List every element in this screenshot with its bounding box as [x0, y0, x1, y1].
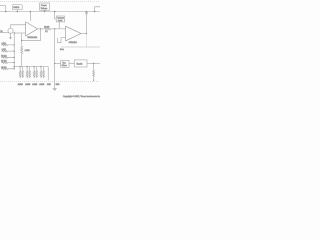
- capacitor CA2 vertical: [29, 67, 31, 79]
- capacitor CA3 vertical: [36, 67, 38, 79]
- label box B3 current source: [56, 16, 64, 22]
- node: B1 junction: [17, 11, 18, 12]
- resistor R5: [1, 68, 14, 70]
- svg-text:1 1: 1 1: [45, 31, 48, 33]
- wire: B5 to right edge: [87, 62, 100, 64]
- node RA4: [40, 66, 41, 67]
- dashed page border bottom: [0, 81, 100, 83]
- node: B2 junction: [44, 11, 45, 12]
- capacitor CA4 vertical: [43, 67, 45, 79]
- wire: rail drop to current source box: [55, 12, 57, 19]
- wire: output line: [61, 46, 100, 48]
- wire: source bottom lead: [10, 33, 12, 37]
- wire: bus continues to ground: [54, 63, 56, 88]
- wire: U1B inverting input loop: [58, 38, 66, 43]
- wire: B4 to B5: [69, 62, 74, 64]
- svg-text:Vout: Vout: [60, 48, 64, 51]
- capacitor CA1 vertical: [22, 67, 24, 79]
- node R1: [14, 44, 15, 45]
- node: U1A power junction: [30, 11, 31, 12]
- resistor RA2 vertical: [26, 67, 28, 79]
- op-amp U1B: [66, 26, 81, 41]
- wire: B1 to rail: [16, 10, 18, 12]
- resistor R3: [1, 56, 14, 58]
- wire: bottom rail: [14, 67, 48, 81]
- node RA1: [20, 66, 21, 67]
- svg-text:1 kΩ: 1 kΩ: [2, 49, 7, 51]
- wire: source top to op-amp input: [11, 25, 26, 28]
- wire: U1A output to R6: [38, 28, 45, 30]
- svg-text:OPA2134A: OPA2134A: [27, 36, 38, 39]
- bus: left divider bus: [13, 33, 15, 69]
- label box B5: [74, 60, 87, 67]
- label box B1: [12, 5, 22, 10]
- node: rail junction right: [86, 11, 87, 12]
- resistor R4: [1, 62, 14, 64]
- source V1 microphone circle: [8, 28, 13, 33]
- node: U1B output junction: [86, 33, 87, 34]
- dashed page border top: [0, 0, 100, 2]
- wire: output drop faint: [86, 34, 88, 47]
- svg-text:AGND: AGND: [39, 83, 45, 86]
- node R5: [14, 68, 15, 69]
- svg-text:1 kΩ: 1 kΩ: [2, 43, 7, 45]
- node: mid signal junction: [54, 28, 55, 29]
- ground arrow R7: [93, 80, 95, 82]
- wire: top right corner branch: [95, 7, 100, 12]
- bus: long vertical from signal node down: [54, 29, 56, 64]
- resistor R7 vertical: [93, 63, 95, 79]
- capacitor C2 in rail branch: [85, 13, 88, 14]
- wire: main top supply rail: [0, 11, 100, 13]
- node: top right junction: [94, 11, 95, 12]
- node: feedback junction: [21, 40, 22, 41]
- wire: left lead into source: [0, 32, 9, 34]
- wire: U1B output: [81, 33, 87, 35]
- wire: supply feed corner: [0, 6, 6, 12]
- node: bus to box wire: [54, 63, 55, 64]
- node: inverting node: [14, 32, 15, 33]
- wire: U1A power pin from rail: [29, 12, 31, 21]
- node: R7 junction: [93, 63, 94, 64]
- svg-text:GND1: GND1: [13, 7, 20, 9]
- op-amp U1A: [26, 22, 38, 36]
- svg-text:AGND: AGND: [18, 83, 24, 86]
- node R4: [14, 62, 15, 63]
- resistor RA4 vertical: [40, 67, 42, 79]
- wire: B3 to signal: [58, 22, 60, 29]
- ground arrow under source: [9, 37, 12, 39]
- wire: U1B output feedback to rail: [86, 12, 88, 34]
- svg-text:10.0k: 10.0k: [44, 26, 49, 28]
- label box B2 power/voltage: [40, 3, 50, 10]
- wire: inverting input of U1A: [14, 32, 25, 34]
- svg-text:Load: Load: [58, 20, 62, 22]
- node R2: [14, 50, 15, 51]
- svg-text:Ohms: Ohms: [62, 65, 67, 67]
- svg-text:68 kΩ: 68 kΩ: [1, 61, 7, 63]
- node: rail junction above box: [54, 11, 55, 12]
- ground: main ground symbol: [53, 89, 57, 91]
- label box B4: [61, 61, 69, 68]
- resistor R2: [1, 50, 14, 52]
- node R3: [14, 57, 15, 58]
- node RA3: [34, 66, 35, 67]
- svg-text:Voltage: Voltage: [41, 7, 49, 10]
- svg-text:OPA2134: OPA2134: [69, 41, 77, 44]
- svg-text:Copyright © 2017, Texas Instru: Copyright © 2017, Texas Instruments Inc: [63, 95, 100, 98]
- resistor RA1 vertical: [19, 67, 21, 79]
- wire: B2 to rail: [44, 10, 46, 11]
- wire: feedback of U1A: [22, 29, 41, 40]
- svg-text:AGND: AGND: [32, 83, 38, 86]
- svg-text:50 kΩ: 50 kΩ: [1, 55, 7, 57]
- svg-text:Power: Power: [41, 5, 47, 7]
- svg-text:AGND: AGND: [25, 83, 31, 86]
- svg-text:Enable: Enable: [77, 63, 83, 65]
- node bottom rail left: [14, 66, 15, 67]
- svg-text:1.07k: 1.07k: [25, 50, 30, 52]
- resistor RG vertical: [21, 46, 23, 66]
- svg-text:68 kΩ: 68 kΩ: [1, 67, 7, 69]
- resistor R1: [1, 44, 14, 46]
- node RA2: [27, 66, 28, 67]
- resistor R6 series: [45, 28, 66, 30]
- node: U1A output junction: [40, 28, 41, 29]
- wire: bus to B4: [55, 62, 61, 64]
- resistor RA3 vertical: [33, 67, 35, 79]
- wire: gain chain tie: [21, 33, 23, 46]
- node: supply junction: [5, 11, 6, 12]
